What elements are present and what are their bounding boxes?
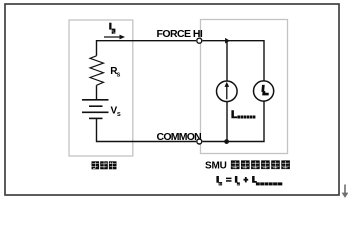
svg-text:S: S — [117, 112, 121, 118]
ammeter IM — [254, 81, 274, 101]
junction bottom — [224, 139, 229, 144]
wire top inside SMU — [203, 41, 264, 81]
node FORCE HI — [197, 38, 202, 43]
svg-text:COMMON: COMMON — [157, 131, 202, 143]
label: battery pack (Chinese, drawn) — [92, 161, 117, 169]
wire bottom inside SMU — [203, 101, 264, 141]
battery source enclosure box — [69, 20, 133, 156]
svg-text:FORCE HI: FORCE HI — [157, 28, 203, 40]
equation IM = IS + IOFFSET — [216, 176, 219, 183]
wire offset source branch top — [226, 41, 228, 81]
current source Ioffset — [217, 81, 238, 102]
resistor Rs — [90, 56, 104, 86]
junction top — [225, 38, 230, 44]
wire top: source to FORCE HI — [97, 41, 197, 56]
battery Vs — [82, 99, 109, 101]
wire offset source branch bottom — [226, 102, 228, 142]
label Ioffset — [231, 110, 237, 118]
wire bottom: battery to COMMON — [97, 118, 197, 141]
svg-text:SMU: SMU — [205, 161, 227, 172]
wire resistor to battery — [96, 85, 98, 99]
SMU enclosure box — [201, 20, 288, 154]
label Is — [109, 23, 111, 30]
node COMMON — [197, 139, 202, 144]
svg-text:S: S — [117, 73, 121, 79]
current direction arrow Is — [104, 36, 121, 38]
